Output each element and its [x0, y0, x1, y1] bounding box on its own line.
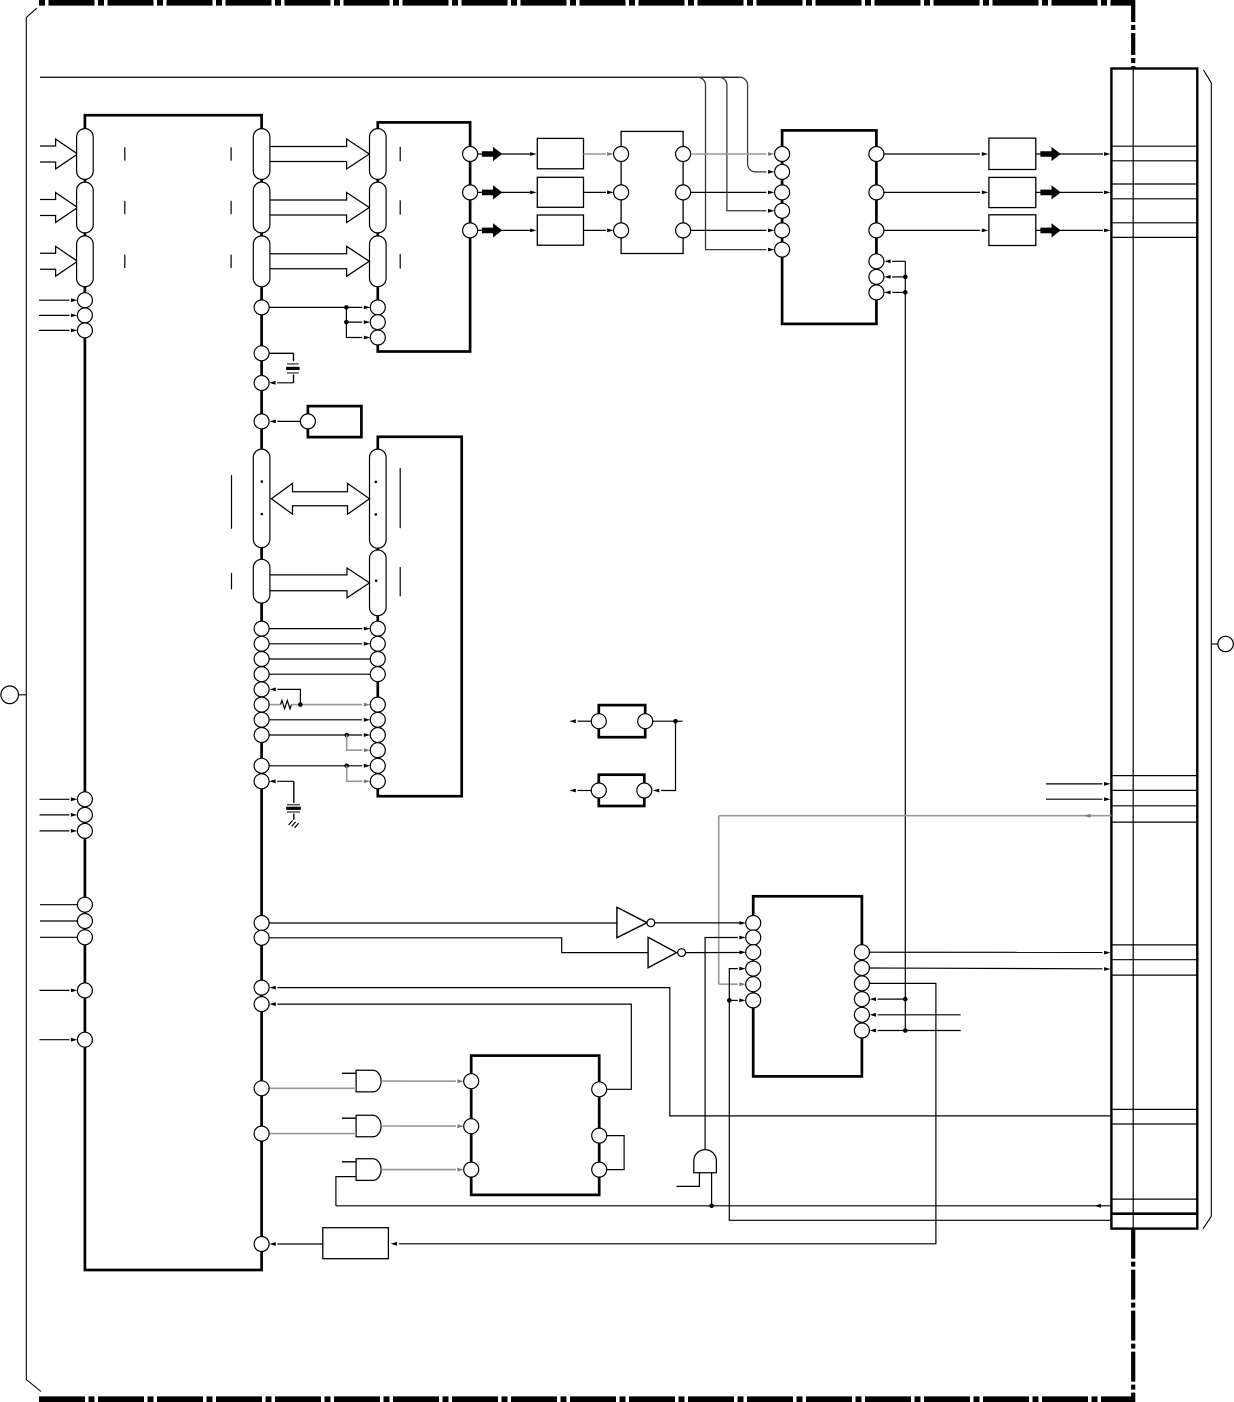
IC U6 (buffer block): [621, 131, 683, 253]
box U3 (reset circuit): [308, 406, 362, 437]
output box OB1: [989, 138, 1036, 169]
wire: U4 to out box row 1: [884, 153, 980, 155]
AND gate G3: [356, 1159, 381, 1181]
U7 right pin circle (1014.8): [854, 1007, 869, 1022]
U6 left pin circle row 1: [614, 147, 629, 162]
J1 pin circles: [591, 714, 606, 729]
inverter B: [648, 937, 677, 967]
output box OB2: [989, 177, 1036, 207]
U5 left data bus pin B: [370, 550, 387, 616]
border: left frame line: [25, 18, 27, 1380]
U1 right bus pin 1: [253, 129, 270, 180]
U1 left pin circle (990.4): [77, 983, 92, 998]
wire: CN1 to U7 enable (grey): [719, 815, 1112, 817]
U1 right pin circle (307.4): [254, 300, 269, 315]
resistor R1 on row 5: [281, 700, 292, 708]
U1 left pin circle (814.9): [77, 807, 92, 822]
connector CN1 pin separator (198.8): [1111, 198, 1197, 200]
connector CN1 pin separator (1124.0): [1111, 1123, 1197, 1125]
U1 pin circle (1004.1): [254, 997, 269, 1012]
bus input arrow in3: [40, 246, 78, 276]
filter box FL1: [537, 138, 583, 168]
U7 right pin circle (983.4): [854, 976, 869, 991]
wire: G2 to U8 (grey): [381, 1125, 456, 1127]
U1 left pin circle (904.7): [77, 897, 92, 912]
wire: U1-U5 row 0: [269, 628, 362, 630]
AND gate G4 (vertical): [694, 1150, 717, 1173]
wire: U1-U5 row 6: [269, 719, 362, 721]
bus input arrow in1: [40, 139, 78, 169]
connector CN1 pin separator (1109.4): [1111, 1108, 1197, 1110]
node dot R1: [298, 702, 303, 707]
U4 left pin circle (249.6): [775, 242, 790, 257]
border: bottom dash-dot frame bar: [39, 1396, 1134, 1402]
wire: drop 2 (to U4 pin d): [719, 77, 766, 211]
IC U7 (sync processor block): [753, 896, 862, 1076]
U7 left pin circle (984.2): [746, 977, 761, 992]
U8 right pin circle (1169.6): [592, 1162, 607, 1177]
U1 bus continuation dash left 2: [124, 201, 126, 214]
wire: U1 to R1 (grey): [269, 704, 281, 706]
U4 right pin circle (230.4): [869, 223, 884, 238]
ground symbol for C2: [289, 820, 293, 825]
IC U1 (large controller block): [85, 115, 262, 1270]
connector CN1 pin separator (790.4): [1111, 789, 1197, 791]
jumper J1: [599, 705, 645, 737]
wire: to connector row 2: [1036, 191, 1103, 193]
U2 right pin circle row 2: [463, 185, 478, 200]
U1 bus continuation dash left 1: [124, 147, 126, 160]
U1 right bus pin 3: [253, 236, 270, 287]
U1 left pin circle (921.0): [77, 914, 92, 929]
bidirectional data bus arrow U1<->U5: [271, 483, 369, 514]
wire: U1-U5 row 7 with branch: [269, 734, 362, 736]
U7 left pin circle (923.0): [746, 916, 761, 931]
wire: input to U1 (830.9): [40, 830, 70, 832]
U1 left pin circle (830.9): [77, 823, 92, 838]
U1 right data bus pin B: [253, 559, 270, 603]
bus input arrow in2: [40, 193, 78, 223]
U1 left pin circle (330.4): [77, 323, 92, 338]
U1 pin circle (987.6): [254, 980, 269, 995]
border: right dash-dot frame (upper segment): [1131, 0, 1135, 69]
wire: to connector row 3: [1036, 229, 1103, 231]
bus continuation dash U1 side (short): [231, 573, 233, 590]
bus arrow U1 to U2 row 2: [270, 193, 369, 223]
U4 left pin circle (230.4): [775, 223, 790, 238]
wire: U7 out to CN1 (952): [870, 951, 1103, 953]
connector CN1 pin separator (975.1): [1111, 974, 1197, 976]
U7 right pin circle (1030.5): [854, 1023, 869, 1038]
filter box FL2: [537, 177, 583, 207]
U4 left pin circle (192.4): [775, 185, 790, 200]
wire: U1 to U2 control net with junctions: [269, 306, 346, 308]
U5 left pin circles rows 0-10: [370, 621, 385, 636]
wire: U7 out to CN1 (968): [870, 967, 1103, 970]
U7 right pin circle (952.2): [854, 945, 869, 960]
connector CN1 pin separator (146.2): [1111, 145, 1197, 147]
U1 bus continuation dash left 3: [124, 255, 126, 268]
wire: drop 1 (to U4 pin f): [698, 77, 767, 249]
connector CN1 pin separator (959.7): [1111, 959, 1197, 961]
U4 left pin circle (210.8): [775, 203, 790, 218]
wire: FL1 to U6 (grey): [584, 153, 607, 155]
bus arrow U1 to U2 row 1: [270, 139, 369, 169]
U1 pin circle (353.3): [254, 346, 269, 361]
wire: G1 top input stub: [342, 1072, 356, 1074]
U4 right pin circle (154.0): [869, 147, 884, 162]
AND gate G1: [356, 1070, 381, 1092]
IC U2 (video encoder block): [378, 122, 470, 351]
wire: U6 to U4 row 2: [691, 191, 767, 193]
wire: G4 input from net: [711, 1173, 713, 1206]
IC U8 (deflection block): [471, 1056, 599, 1195]
wire: G3 bottom input from net: [336, 1177, 356, 1206]
wire: U6 to U4 row 3: [691, 229, 767, 231]
U1 pin circle (937.8): [254, 930, 269, 945]
connector CN1 pin separator (237.4): [1111, 236, 1197, 238]
wire: G4 input stub: [677, 1173, 700, 1187]
output box OB3: [989, 215, 1036, 246]
connector CN1 pin separator (160.8): [1111, 160, 1197, 162]
U7 left pin circle (952.2): [746, 945, 761, 960]
wire: inverter B to U7: [686, 952, 740, 954]
connector CN1 pin separator (822.1): [1111, 821, 1197, 823]
U5 left data bus pin A: [370, 449, 387, 548]
wire: input to U1 left pin (330.4): [39, 329, 70, 331]
wire: U1 to inverter A: [269, 922, 617, 924]
U6 right pin circle row 2: [676, 185, 691, 200]
wire: to filter box row 2: [478, 191, 532, 193]
J2 pin circles: [591, 783, 606, 798]
wire: drop 3 (to U4 pin b, rounded elbow): [740, 77, 767, 172]
U4 left pin circle (154.0): [775, 147, 790, 162]
fat signal arrow row 2: [482, 185, 502, 199]
U8 right pin circle (1089.3): [592, 1082, 607, 1097]
wire: FL2 to U6: [584, 191, 607, 193]
wire: to filter box row 1: [478, 153, 532, 155]
U8 left pin circle (1126.2): [464, 1119, 479, 1134]
U1 right pin circles rows 0-10: [254, 621, 269, 636]
wire: inverter A to U7: [655, 922, 740, 924]
wire: B4 to U1: [277, 1243, 322, 1245]
wire: input to U1 (990.4): [40, 989, 70, 991]
U2 left bus pin 3: [370, 236, 387, 287]
U8 left pin circle (1081.2): [464, 1074, 479, 1089]
U1 left pin circle (1039.7): [77, 1032, 92, 1047]
wire: U4 to out box row 3: [884, 229, 980, 231]
U4 right pin circle (292.4): [869, 285, 884, 300]
U2 left bus pin 2: [370, 182, 387, 233]
fat signal arrow row 3: [482, 223, 502, 237]
wire: U1-U5 row 1: [269, 643, 362, 645]
U1 pin circle (383.0): [254, 376, 269, 391]
wire: stub into CN1 (799.2): [1046, 798, 1102, 800]
connector CN1 pin separator (775.6): [1111, 775, 1197, 777]
wire: input to U1 (814.9): [40, 814, 70, 816]
wire: G3 top input stub: [342, 1161, 356, 1163]
bus arrow U1 to U2 row 3: [270, 246, 369, 276]
wire: R1 node to U5 row 5 (grey): [291, 704, 362, 706]
wire: U4 to out box row 2: [884, 191, 980, 193]
wire: into U7 (999.1): [878, 998, 906, 1000]
U1 right bus pin 2: [253, 182, 270, 233]
wire: G1 to U8 (grey): [381, 1080, 456, 1082]
U6 left pin circle row 3: [614, 223, 629, 238]
wire: to connector row 1: [1036, 153, 1103, 155]
wire: J2 left out-arrow: [578, 790, 592, 792]
wire: U1 to G2 (grey): [269, 1133, 356, 1135]
wire: input to U1 left pin (315.4): [39, 314, 70, 316]
connector CN1 pin separator (1199.1): [1111, 1198, 1197, 1200]
U1 left bus pin 3: [77, 236, 94, 287]
wire: U6 to U4 row 1 (grey): [691, 153, 767, 155]
U6 left pin circle row 2: [614, 185, 629, 200]
connector CN1 3D edge: [1203, 70, 1211, 1229]
U4 right pin circle (261.3): [869, 254, 884, 269]
U1 left bus pin 2: [77, 182, 94, 233]
U7 right pin circle (968.0): [854, 961, 869, 976]
box B4 (delay element): [323, 1228, 389, 1259]
border: right dash-dot frame (lower segment): [1131, 1229, 1135, 1402]
connector CN1 thick separator: [1111, 1212, 1197, 1215]
border: top dash-dot frame bar: [39, 0, 1135, 6]
wire: FL3 to U6: [584, 229, 607, 231]
wire: stub into U7 (1030.5): [878, 1030, 961, 1032]
wire: U1-U5 row 9 with branch: [269, 765, 362, 767]
crystal X1 between U1 pins (oscillator): [269, 352, 294, 354]
wire: U1 to G1 (grey): [269, 1087, 356, 1089]
wire: J1 left out-arrow: [578, 720, 592, 722]
wire: input to U1 (1039.7): [40, 1039, 70, 1041]
U1 pin circle (1088.3): [254, 1081, 269, 1096]
page reference bubble right margin: [1218, 636, 1233, 651]
IC U5 (memory block): [378, 437, 462, 796]
U8 right pin circle (1135.6): [592, 1128, 607, 1143]
fat signal arrow row 1: [482, 147, 502, 161]
wire: stub into U7 (1014.8): [878, 1014, 961, 1016]
wire: G4 output to U7: [705, 938, 738, 1150]
connector CN1 shell: [1111, 69, 1197, 1229]
U1 right data bus pin A: [253, 449, 270, 547]
wire: U1-U5 row 2: [269, 658, 370, 660]
capacitor C2 to ground on row 10: [277, 780, 294, 782]
U3 output pin circle: [300, 414, 315, 429]
wire: U8 loopback bracket: [607, 1136, 624, 1170]
U1 left pin circle (937.3): [77, 930, 92, 945]
bus continuation dash U1 side (long): [231, 475, 233, 529]
wire: U8 pin to U1 pin 1004.1: [277, 1004, 631, 1089]
connector CN1 pin separator (222.8): [1111, 222, 1197, 224]
U7 left pin circle (937.5): [746, 930, 761, 945]
wire: G3 to U8 (grey): [381, 1169, 456, 1171]
connector CN1 pin separator (184.0): [1111, 183, 1197, 185]
U2 continuation dash row 1: [399, 147, 401, 161]
U4 left pin circle (171.9): [775, 164, 790, 179]
U1 pin circle (1244.0): [254, 1237, 269, 1252]
U6 right pin circle row 1: [676, 147, 691, 162]
U8 left pin circle (1169.6): [464, 1162, 479, 1177]
inverter A: [617, 907, 647, 937]
U2 continuation dash row 3: [399, 254, 401, 268]
wire: long net from CN1 to G3/G4: [336, 1205, 1112, 1207]
address bus arrow U1->U5: [270, 568, 370, 598]
U4 right pin circle (276.9): [869, 269, 884, 284]
U1 bus continuation dash right 2: [230, 201, 232, 214]
jumper J2: [599, 775, 645, 806]
page reference bubble left margin: [1, 686, 19, 704]
fat output arrow row 3: [1040, 223, 1060, 237]
bus continuation dash U5 side (short): [399, 567, 401, 596]
U2 continuation dash row 2: [399, 200, 401, 214]
U1 pin circle (923.0): [254, 916, 269, 931]
ellipsis dot in bus pin B: [375, 579, 378, 582]
wire: U7 to delay box net: [399, 983, 936, 1243]
U2 lower left pin circles: [370, 300, 385, 315]
connector CN1 pin separator (805.8): [1111, 805, 1197, 807]
U1 bus continuation dash right 1: [230, 147, 232, 160]
ellipsis dots in bus pin A: [261, 480, 264, 483]
border: top-left corner diagonal: [26, 8, 37, 17]
U7 left pin circle (1000.4): [746, 993, 761, 1008]
U1 pin circle (1133.6): [254, 1126, 269, 1141]
wire: U4 aux pins vertical net: [892, 260, 905, 262]
U2 right pin circle row 1: [463, 147, 478, 162]
wire: top horizontal net at y=77: [40, 76, 740, 78]
wire: input to U1 (799.3): [40, 798, 70, 800]
wire: input to U1 left pin (300.2): [39, 299, 70, 301]
U7 left pin circle (968.6): [746, 961, 761, 976]
wire: input to U1 plain (921.0): [40, 920, 77, 922]
U1 left pin circle (315.4): [77, 308, 92, 323]
fat output arrow row 2: [1040, 185, 1060, 199]
filter box FL3: [537, 215, 583, 245]
wire: to filter box row 3: [478, 229, 532, 231]
wire: CN1 row1116 to U1 pin 987.6: [277, 988, 1111, 1116]
connector CN1 inner divider: [1132, 69, 1134, 1229]
wire: input to U1 plain (904.7): [40, 904, 77, 906]
border: bottom-left corner diagonal: [26, 1380, 41, 1392]
U2 right pin circle row 3: [463, 223, 478, 238]
wire: U3 to U1 reset: [277, 420, 300, 422]
connector CN1 pin separator (944.9): [1111, 944, 1197, 946]
AND gate G2: [356, 1115, 381, 1137]
bus continuation dash U5 side (long): [399, 468, 401, 528]
U1 bus continuation dash right 3: [230, 255, 232, 268]
fat output arrow row 1: [1040, 147, 1060, 161]
wire: U1 to inverter B: [269, 938, 648, 953]
U2 left bus pin 1: [370, 129, 387, 180]
U1 pin circle (421.4): [254, 414, 269, 429]
wire: input to U1 plain (937.3): [40, 936, 77, 938]
U1 left bus pin 1: [77, 129, 94, 180]
wire: stub into CN1 (783.9): [1046, 783, 1102, 785]
U4 right pin circle (192.4): [869, 185, 884, 200]
U7 right pin circle (999.1): [854, 992, 869, 1007]
U1 left pin circle (300.2): [77, 293, 92, 308]
wire: G2 top input stub: [342, 1117, 356, 1119]
U1 left pin circle (799.3): [77, 792, 92, 807]
wire: J1 right net to J2: [653, 720, 683, 722]
wire: U1-U5 row 3: [269, 673, 370, 675]
IC U4 (output driver block): [782, 130, 876, 324]
U6 right pin circle row 3: [676, 223, 691, 238]
wire: CN1 net to U7 pin 968 and 1000: [729, 969, 1111, 1221]
wire: feedback into U1 row 4: [277, 689, 300, 704]
